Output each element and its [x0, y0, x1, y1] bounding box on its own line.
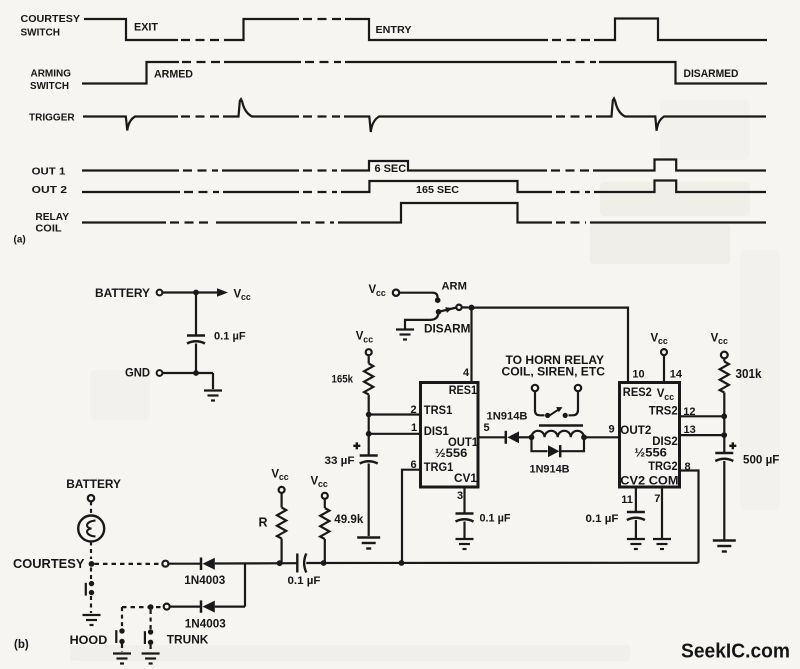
svg-text:COIL, SIREN, ETC: COIL, SIREN, ETC: [502, 365, 606, 379]
svg-text:1N4003: 1N4003: [184, 573, 225, 587]
svg-text:6 SEC: 6 SEC: [375, 163, 407, 175]
svg-text:(a): (a): [14, 235, 26, 246]
svg-text:TRS2: TRS2: [649, 406, 678, 418]
svg-text:DIS1: DIS1: [424, 426, 450, 438]
svg-text:0.1 µF: 0.1 µF: [480, 513, 511, 525]
svg-text:cc: cc: [279, 472, 289, 482]
svg-text:COURTESY: COURTESY: [13, 557, 85, 571]
svg-text:R: R: [259, 516, 268, 530]
svg-text:ARMED: ARMED: [154, 69, 193, 81]
svg-text:cc: cc: [318, 479, 328, 489]
svg-text:COURTESY: COURTESY: [21, 13, 81, 25]
svg-text:DISARMED: DISARMED: [684, 68, 739, 80]
svg-text:cc: cc: [241, 292, 251, 302]
svg-text:ARM: ARM: [442, 281, 467, 293]
svg-text:33 µF: 33 µF: [325, 455, 355, 467]
svg-text:½556: ½556: [634, 447, 667, 459]
svg-text:165 SEC: 165 SEC: [416, 185, 459, 196]
svg-text:1: 1: [411, 422, 417, 434]
svg-text:165k: 165k: [332, 374, 354, 386]
svg-text:2: 2: [411, 404, 417, 416]
svg-text:11: 11: [621, 494, 633, 506]
svg-text:TRIGGER: TRIGGER: [29, 111, 75, 123]
svg-text:COIL: COIL: [35, 223, 62, 235]
svg-text:OUT 2: OUT 2: [32, 184, 67, 196]
svg-text:1N914B: 1N914B: [487, 410, 528, 422]
svg-text:HOOD: HOOD: [70, 633, 108, 647]
svg-text:DISARM: DISARM: [424, 321, 470, 335]
svg-text:0.1 µF: 0.1 µF: [288, 575, 321, 587]
svg-text:7: 7: [654, 493, 660, 505]
svg-text:SeekIC.com: SeekIC.com: [681, 641, 790, 663]
svg-text:RES2: RES2: [623, 387, 652, 399]
svg-text:CV2 COM: CV2 COM: [620, 476, 678, 488]
svg-text:ARMING: ARMING: [31, 68, 72, 80]
svg-text:RELAY: RELAY: [35, 211, 69, 223]
svg-text:500 µF: 500 µF: [743, 453, 779, 467]
svg-text:GND: GND: [125, 366, 150, 380]
svg-text:(b): (b): [14, 639, 29, 651]
svg-text:TRG1: TRG1: [424, 462, 454, 474]
svg-text:5: 5: [484, 422, 490, 434]
svg-text:cc: cc: [718, 336, 728, 346]
svg-text:TRS1: TRS1: [424, 405, 453, 417]
svg-text:TRG2: TRG2: [648, 461, 678, 473]
svg-text:OUT2: OUT2: [620, 425, 651, 437]
svg-text:14: 14: [670, 368, 683, 380]
svg-text:DIS2: DIS2: [652, 436, 677, 448]
svg-text:9: 9: [609, 424, 615, 436]
svg-text:cc: cc: [664, 392, 674, 402]
svg-text:cc: cc: [658, 336, 668, 346]
svg-text:301k: 301k: [736, 366, 763, 381]
svg-text:SWITCH: SWITCH: [30, 80, 69, 92]
svg-text:49.9k: 49.9k: [334, 512, 363, 526]
svg-text:4: 4: [463, 367, 470, 379]
svg-text:TRUNK: TRUNK: [167, 632, 209, 646]
svg-text:cc: cc: [363, 334, 373, 344]
svg-text:RES1: RES1: [449, 385, 478, 397]
svg-text:SWITCH: SWITCH: [21, 26, 61, 38]
svg-text:0.1 µF: 0.1 µF: [214, 331, 246, 343]
svg-text:0.1 µF: 0.1 µF: [586, 513, 619, 525]
svg-text:1N914B: 1N914B: [530, 464, 570, 476]
svg-text:10: 10: [632, 368, 644, 380]
svg-text:cc: cc: [376, 288, 386, 298]
svg-text:ENTRY: ENTRY: [376, 25, 412, 36]
svg-text:BATTERY: BATTERY: [95, 287, 150, 300]
svg-text:EXIT: EXIT: [134, 22, 158, 34]
svg-text:OUT 1: OUT 1: [32, 165, 66, 177]
svg-text:½556: ½556: [435, 448, 468, 460]
svg-text:OUT1: OUT1: [448, 437, 479, 449]
svg-text:BATTERY: BATTERY: [66, 477, 121, 491]
svg-text:1N4003: 1N4003: [185, 617, 226, 631]
svg-text:3: 3: [457, 490, 463, 502]
svg-text:CV1: CV1: [454, 473, 478, 485]
